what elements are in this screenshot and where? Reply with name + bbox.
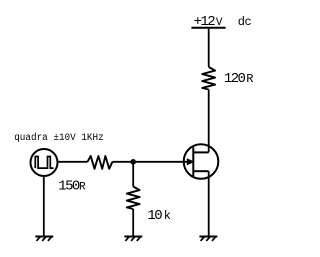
svg-text:k: k xyxy=(164,209,171,223)
label quadra ±10V 1KHz xyxy=(14,132,104,144)
svg-text:10: 10 xyxy=(147,208,162,224)
resistor 10k xyxy=(127,187,140,210)
wire supply to R 120R xyxy=(208,29,210,67)
resistor 150R xyxy=(88,156,113,169)
svg-text:dc: dc xyxy=(238,15,252,29)
node junction dot xyxy=(130,159,136,165)
svg-text:R: R xyxy=(246,72,253,86)
wire source circle to ground xyxy=(43,177,45,237)
ground (transistor source) xyxy=(199,237,217,241)
label 120R xyxy=(224,71,254,87)
wire R 120R to drain xyxy=(208,90,210,153)
wire source to R 150R xyxy=(58,161,87,163)
svg-text:120: 120 xyxy=(224,71,246,87)
power rail underline xyxy=(191,27,225,29)
label 150R xyxy=(58,178,86,194)
label 10k xyxy=(147,208,171,224)
node +12V dc label xyxy=(194,14,252,30)
svg-text:150: 150 xyxy=(58,178,80,194)
wire junction to R 10k xyxy=(132,162,134,187)
wire R 10k to ground xyxy=(132,209,134,237)
transistor Q1 (FET) xyxy=(184,144,219,179)
resistor 120R xyxy=(202,67,215,90)
svg-text:R: R xyxy=(79,181,86,193)
source V1 square wave generator xyxy=(31,149,58,176)
svg-text:quadra ±10V 1KHz: quadra ±10V 1KHz xyxy=(14,132,104,144)
ground (10k) xyxy=(124,237,142,241)
wire R 150R to gate xyxy=(112,161,193,163)
wire source to ground xyxy=(208,171,210,236)
ground (source) xyxy=(35,237,53,241)
